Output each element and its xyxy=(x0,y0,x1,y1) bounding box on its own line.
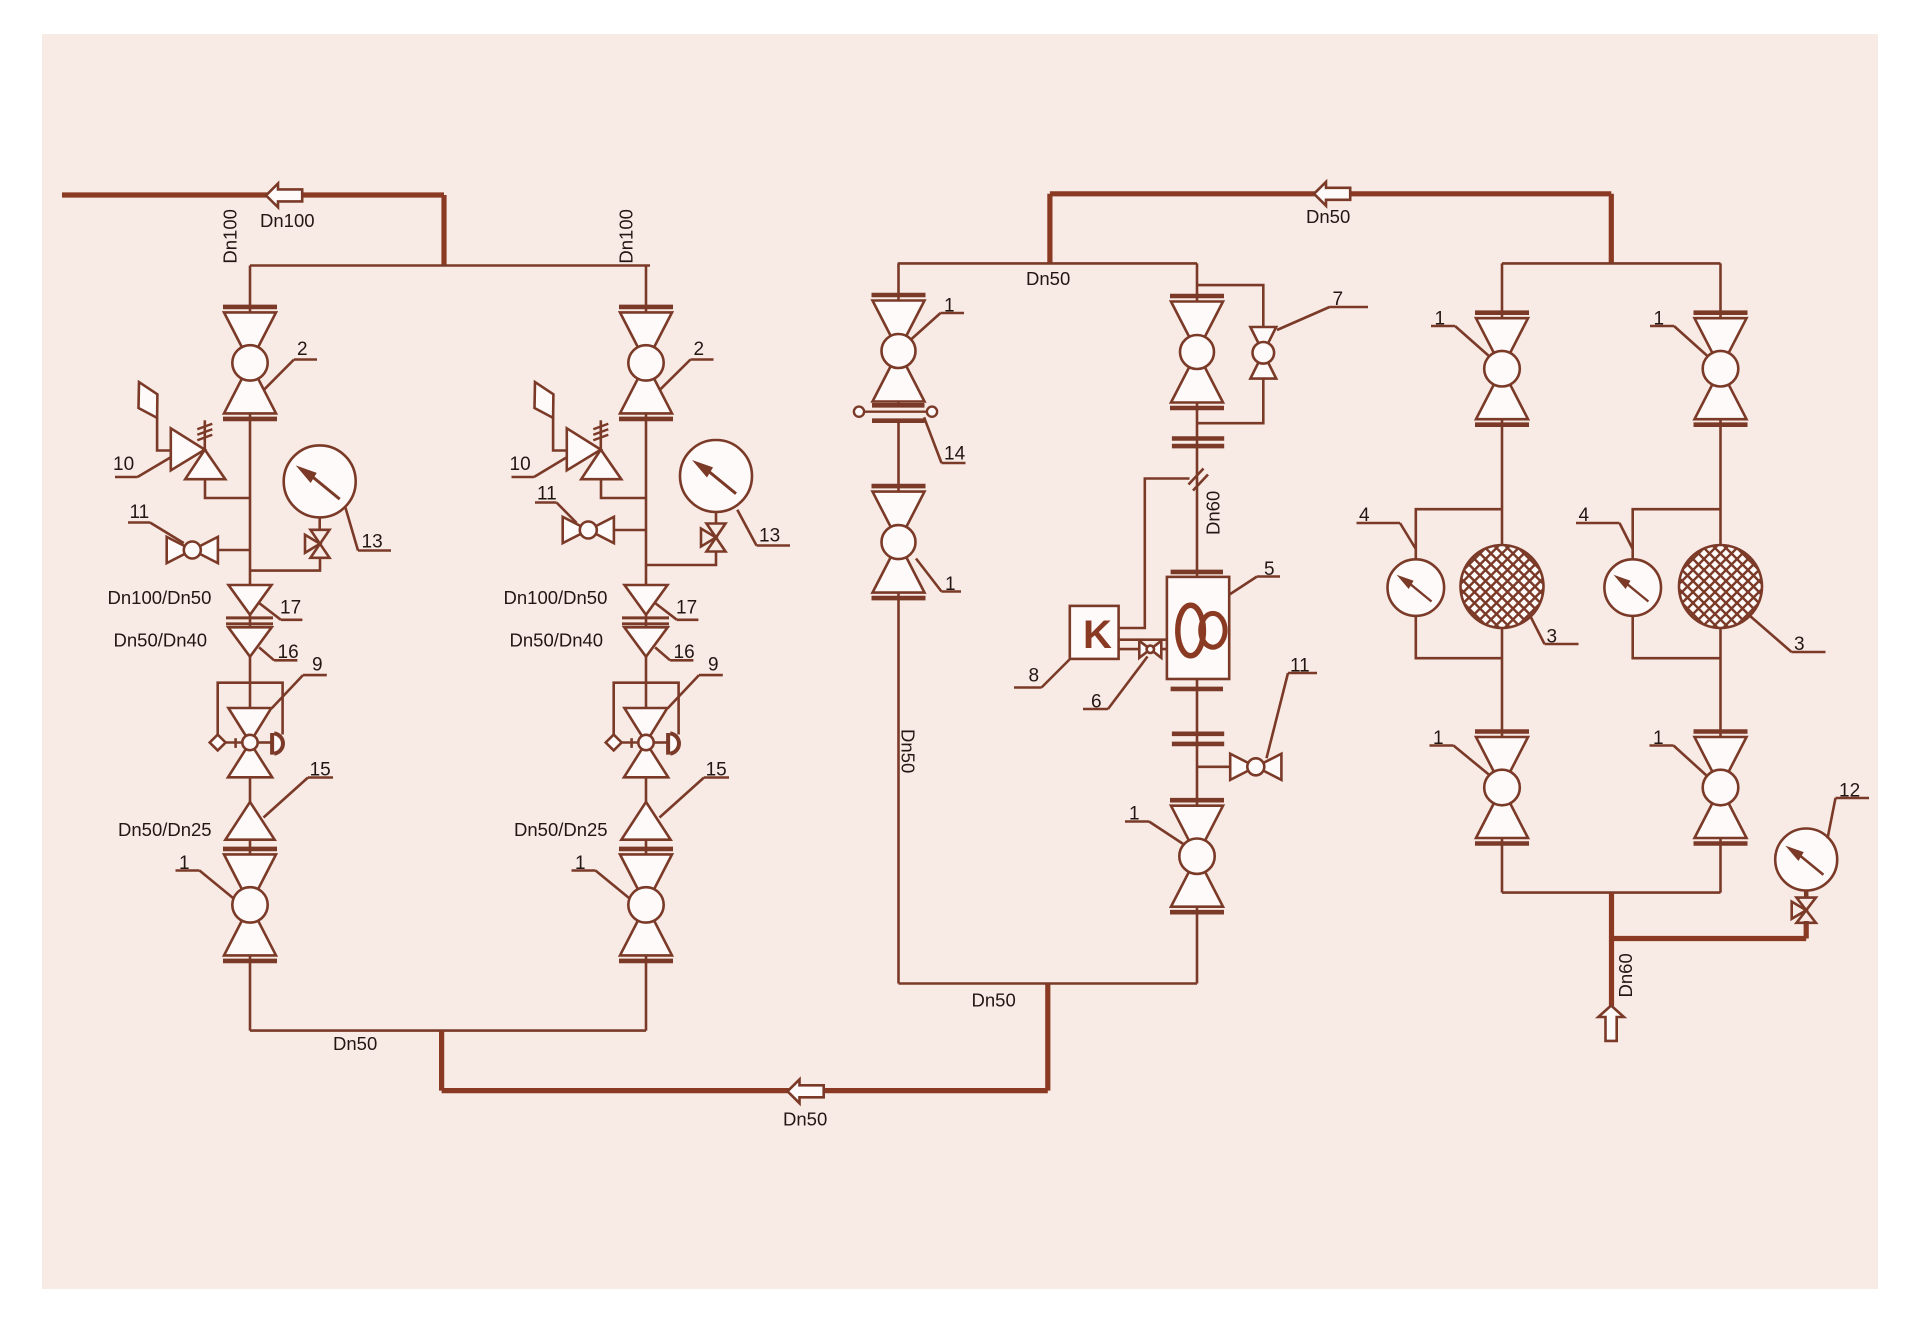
svg-text:10: 10 xyxy=(113,454,134,475)
svg-text:17: 17 xyxy=(676,598,697,619)
svg-text:5: 5 xyxy=(1264,559,1275,580)
svg-text:Dn50: Dn50 xyxy=(333,1033,377,1054)
svg-text:Dn50: Dn50 xyxy=(898,729,919,773)
svg-text:Dn50/Dn40: Dn50/Dn40 xyxy=(114,630,208,651)
svg-text:1: 1 xyxy=(1435,309,1446,330)
svg-text:3: 3 xyxy=(1547,627,1558,648)
svg-text:Dn100: Dn100 xyxy=(616,209,637,264)
svg-text:11: 11 xyxy=(130,502,150,523)
svg-text:1: 1 xyxy=(1654,309,1665,330)
svg-text:Dn100: Dn100 xyxy=(260,210,315,231)
svg-text:Dn50: Dn50 xyxy=(783,1109,827,1130)
svg-text:K: K xyxy=(1083,613,1112,657)
svg-text:2: 2 xyxy=(694,339,705,360)
svg-text:13: 13 xyxy=(362,532,383,553)
svg-text:4: 4 xyxy=(1359,505,1370,526)
svg-text:11: 11 xyxy=(1290,656,1310,677)
svg-text:1: 1 xyxy=(944,296,955,317)
svg-text:Dn50: Dn50 xyxy=(1026,268,1070,289)
svg-text:Dn100/Dn50: Dn100/Dn50 xyxy=(504,587,608,608)
svg-text:3: 3 xyxy=(1794,634,1805,655)
svg-text:1: 1 xyxy=(945,574,956,595)
svg-text:Dn100/Dn50: Dn100/Dn50 xyxy=(108,587,212,608)
svg-text:Dn50: Dn50 xyxy=(1306,206,1350,227)
svg-text:9: 9 xyxy=(708,655,719,676)
svg-text:1: 1 xyxy=(1129,804,1140,825)
svg-text:1: 1 xyxy=(1653,728,1664,749)
svg-text:Dn60: Dn60 xyxy=(1615,953,1636,997)
svg-text:11: 11 xyxy=(537,484,557,505)
svg-text:Dn60: Dn60 xyxy=(1203,491,1224,535)
svg-text:9: 9 xyxy=(312,655,323,676)
svg-text:14: 14 xyxy=(944,444,966,465)
svg-text:7: 7 xyxy=(1333,289,1344,310)
svg-text:Dn50/Dn25: Dn50/Dn25 xyxy=(118,819,212,840)
svg-text:Dn50/Dn25: Dn50/Dn25 xyxy=(514,819,608,840)
svg-text:1: 1 xyxy=(1433,728,1444,749)
svg-text:Dn50/Dn40: Dn50/Dn40 xyxy=(510,630,604,651)
svg-text:13: 13 xyxy=(759,526,780,547)
svg-text:12: 12 xyxy=(1839,781,1860,802)
svg-text:4: 4 xyxy=(1579,505,1590,526)
svg-text:8: 8 xyxy=(1029,666,1040,687)
svg-text:10: 10 xyxy=(510,454,531,475)
svg-text:Dn50: Dn50 xyxy=(972,990,1016,1011)
svg-text:Dn100: Dn100 xyxy=(220,209,241,264)
svg-text:2: 2 xyxy=(297,339,308,360)
svg-text:17: 17 xyxy=(280,598,301,619)
svg-text:6: 6 xyxy=(1091,692,1102,713)
